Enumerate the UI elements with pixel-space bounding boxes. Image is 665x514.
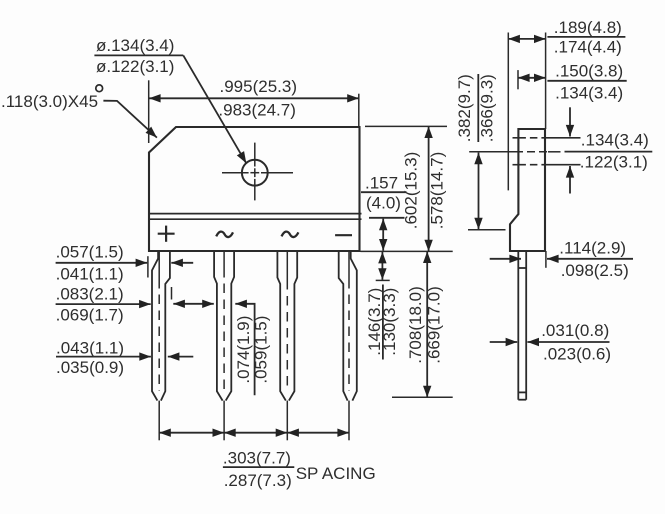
side view hole centerline xyxy=(469,151,560,153)
dim .189 left extension line xyxy=(507,33,509,191)
svg-text:.043(1.1): .043(1.1) xyxy=(56,339,124,358)
separator double line lower xyxy=(149,218,362,220)
dim .083/.069 opposing arrow pair xyxy=(173,303,214,305)
dim .083/.069 bar and leader arrow xyxy=(56,303,151,305)
spacing label fraction bar xyxy=(223,466,294,468)
svg-text:.983(24.7): .983(24.7) xyxy=(218,100,296,119)
minus terminal symbol xyxy=(335,234,352,236)
side view lead right edge xyxy=(525,251,527,400)
lead 3 right edge xyxy=(289,251,297,401)
lead 3 left edge xyxy=(277,251,285,401)
dim .189 right extension line xyxy=(545,33,547,130)
lead 1 extension tick xyxy=(147,256,149,277)
spacing dimension segment 2 xyxy=(224,432,287,434)
side view body outline xyxy=(510,129,545,251)
side view lead upper tick xyxy=(518,267,526,269)
body bottom extension line xyxy=(361,250,453,252)
plus terminal symbol xyxy=(158,226,175,242)
dim .114 left arrow xyxy=(490,258,521,260)
dim .150 arrow xyxy=(518,77,546,79)
separator double line upper xyxy=(149,213,362,215)
svg-text:.041(1.1): .041(1.1) xyxy=(56,265,124,284)
svg-text:.578(14.7): .578(14.7) xyxy=(428,152,447,230)
spacing dimension segment 1 xyxy=(159,432,224,434)
svg-text:.303(7.7): .303(7.7) xyxy=(223,448,291,467)
lead 3 centerline xyxy=(286,251,288,391)
svg-text:.174(4.4): .174(4.4) xyxy=(554,37,622,56)
hole crosshair horizontal xyxy=(222,172,293,174)
svg-text:.134(3.4): .134(3.4) xyxy=(581,131,649,150)
svg-text:SP ACING: SP ACING xyxy=(296,464,376,483)
svg-text:.074(1.9): .074(1.9) xyxy=(234,316,253,384)
svg-text:.995(25.3): .995(25.3) xyxy=(220,77,298,96)
lead 1 wide-part extension stub xyxy=(171,287,173,300)
dim .189 arrow xyxy=(508,38,545,40)
dim .157 fraction bar xyxy=(361,191,407,193)
hole diameter leader arrow xyxy=(183,55,246,163)
dimension .995/.983 right extension line xyxy=(358,94,360,127)
svg-text:.130(3.3): .130(3.3) xyxy=(380,288,399,356)
dim .134/.122 fraction bar xyxy=(565,151,653,153)
svg-text:.150(3.8): .150(3.8) xyxy=(555,62,623,81)
AC terminal symbol 2 xyxy=(282,232,299,237)
dim .708 bottom extension xyxy=(392,396,453,398)
lead tip extension line 4 xyxy=(348,401,350,441)
lead 4 right edge xyxy=(351,251,357,401)
side view lead tip tick xyxy=(518,391,526,393)
hole diameter up arrow xyxy=(569,166,571,194)
lead 2 right edge xyxy=(226,251,234,401)
svg-text:.287(7.3): .287(7.3) xyxy=(224,471,292,490)
dim .057/.041 opposing arrow xyxy=(171,262,193,264)
hole diameter down arrow xyxy=(569,107,571,136)
dim .057/.041 bar and leader arrow xyxy=(56,262,148,264)
dim .043/.035 opposing arrow xyxy=(168,356,194,358)
dim .146 bottom extension xyxy=(376,279,390,281)
dim .382 bottom extension xyxy=(468,229,506,231)
svg-text:(4.0): (4.0) xyxy=(366,193,401,212)
dim .043/.035 bar and leader arrow xyxy=(56,356,151,358)
hole crosshair vertical xyxy=(254,143,256,201)
svg-text:.157: .157 xyxy=(365,174,398,193)
dim .031 left arrow xyxy=(490,341,518,343)
svg-text:.122(3.1): .122(3.1) xyxy=(580,153,648,172)
svg-text:.602(15.3): .602(15.3) xyxy=(402,152,421,230)
svg-text:.669(17.0): .669(17.0) xyxy=(424,286,443,364)
lead 2 left edge xyxy=(214,251,223,401)
svg-text:.069(1.7): .069(1.7) xyxy=(56,305,124,324)
svg-text:.083(2.1): .083(2.1) xyxy=(56,284,124,303)
dim .157 arrow xyxy=(382,219,384,251)
lead tip extension line 1 xyxy=(158,401,160,441)
spacing dimension segment 3 xyxy=(287,432,349,434)
dim .150/.134 fraction bar xyxy=(547,80,626,82)
svg-text:.708(18.0): .708(18.0) xyxy=(406,286,425,364)
svg-text:.059(1.5): .059(1.5) xyxy=(252,316,271,384)
svg-text:.382(9.7): .382(9.7) xyxy=(455,74,474,142)
side view hole hidden line bottom xyxy=(513,164,581,166)
side view hole hidden line top xyxy=(513,137,581,139)
dim .114 right extension line xyxy=(545,251,547,268)
svg-text:.114(2.9): .114(2.9) xyxy=(559,239,626,258)
dimension .995/.983 left extension line xyxy=(148,80,150,143)
dim .602/.578 line xyxy=(428,126,430,251)
svg-text:.134(3.4): .134(3.4) xyxy=(555,83,623,102)
dim .382/.366 arrow xyxy=(478,153,480,230)
svg-text:.366(9.3): .366(9.3) xyxy=(477,74,496,142)
svg-text:.023(0.6): .023(0.6) xyxy=(543,345,611,364)
svg-text:.098(2.5): .098(2.5) xyxy=(561,261,629,280)
svg-text:ø.134(3.4): ø.134(3.4) xyxy=(96,36,174,55)
lead 1 right edge xyxy=(161,251,170,401)
top extension line right of body xyxy=(365,125,447,127)
lead 1 left edge xyxy=(152,251,158,401)
AC terminal symbol 1 xyxy=(216,232,233,237)
front view package body outline xyxy=(149,127,360,251)
degree symbol circle xyxy=(96,85,103,92)
dim .031 right arrow and fraction bar xyxy=(527,341,609,343)
svg-text:.035(0.9): .035(0.9) xyxy=(56,358,124,377)
svg-text:ø.122(3.1): ø.122(3.1) xyxy=(96,57,174,76)
dim .146/.130 fraction line xyxy=(382,285,384,360)
dimension line .995/.983 xyxy=(149,97,359,99)
svg-text:.031(0.8): .031(0.8) xyxy=(541,321,609,340)
lead tip extension line 2 xyxy=(223,401,225,441)
lead 1 centerline xyxy=(158,251,160,391)
lead tip extension line 3 xyxy=(286,401,288,441)
mounting hole xyxy=(242,160,268,186)
dim .146 arrow xyxy=(381,252,383,280)
chamfer leader arrow xyxy=(103,101,156,138)
dim .114 right arrow and fraction bar xyxy=(547,258,633,260)
dim .382/.366 fraction line xyxy=(477,74,479,142)
dim .708/.669 line xyxy=(426,251,428,397)
hole diameter label fraction bar xyxy=(94,54,183,56)
lead 4 left edge xyxy=(339,251,348,401)
lead 4 centerline xyxy=(348,251,350,391)
side view lead bottom xyxy=(518,399,526,401)
dim .189/.174 fraction bar xyxy=(547,36,625,38)
svg-text:.189(4.8): .189(4.8) xyxy=(554,18,622,37)
lead 2 centerline xyxy=(223,251,225,391)
dim .150 left extension tick xyxy=(517,70,519,89)
dim .074/.059 arrow with bent fraction line xyxy=(235,304,254,395)
svg-text:.057(1.5): .057(1.5) xyxy=(56,242,124,261)
dim .157 lower reference bar xyxy=(369,217,405,219)
svg-text:.118(3.0)X45: .118(3.0)X45 xyxy=(1,92,98,111)
side view lead left edge xyxy=(517,251,519,400)
